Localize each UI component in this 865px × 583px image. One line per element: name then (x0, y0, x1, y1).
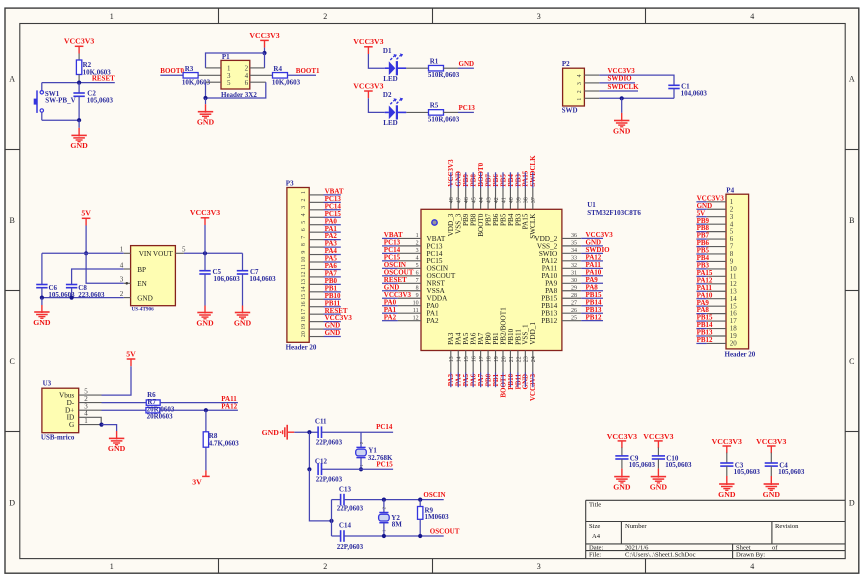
svg-text:34: 34 (571, 248, 577, 254)
node PC13 (458, 104, 475, 112)
junction (382, 498, 423, 502)
resistor R1 (428, 58, 460, 80)
svg-text:VCC3V3: VCC3V3 (643, 432, 673, 441)
svg-text:GND: GND (262, 428, 280, 437)
wire (368, 54, 384, 68)
wire (102, 425, 117, 431)
capacitor C4 (765, 462, 805, 477)
ground (613, 98, 631, 135)
capacitor C6 (36, 253, 75, 299)
resistor R7 (102, 398, 175, 420)
ground (613, 469, 631, 492)
node PA1 (324, 225, 341, 233)
crystal Y2 8M (379, 506, 403, 532)
svg-text:R2: R2 (83, 61, 92, 69)
svg-text:R4: R4 (273, 65, 282, 73)
wire (383, 523, 385, 536)
svg-text:18: 18 (486, 356, 492, 362)
node PA5 (462, 373, 470, 388)
svg-text:SWDCLK: SWDCLK (608, 83, 640, 91)
ground (718, 476, 736, 499)
wire (42, 82, 79, 84)
node PB9 (462, 172, 470, 188)
node PB1 (324, 284, 341, 292)
power VCC3V3 (756, 437, 786, 453)
svg-text:43: 43 (486, 197, 492, 203)
svg-text:4: 4 (120, 261, 124, 269)
node OSCOUT (382, 268, 414, 276)
svg-text:Drawn By:: Drawn By: (736, 552, 765, 559)
svg-text:18: 18 (301, 316, 307, 322)
ground (650, 469, 668, 492)
svg-text:3: 3 (416, 248, 419, 254)
svg-text:2: 2 (323, 12, 327, 21)
svg-text:104,0603: 104,0603 (681, 90, 708, 98)
node PA15 (522, 170, 530, 188)
svg-text:VCC3V3: VCC3V3 (64, 37, 94, 46)
node PA3 (324, 240, 341, 248)
svg-text:B: B (849, 216, 854, 225)
svg-text:5V: 5V (126, 349, 136, 358)
junction (203, 96, 207, 100)
wire (78, 54, 80, 61)
svg-text:105,0603: 105,0603 (665, 461, 692, 469)
wire (42, 119, 79, 121)
node PC15 (361, 460, 393, 469)
connector P2 SWD (562, 60, 600, 114)
svg-text:5V: 5V (81, 209, 91, 218)
power 3V (192, 470, 209, 486)
node PA1 (382, 306, 398, 314)
svg-text:Header 20: Header 20 (286, 344, 317, 352)
node GND (324, 329, 341, 337)
connector U3 USB-mrico (41, 380, 102, 442)
node GND (455, 171, 463, 188)
node PB1 (492, 373, 500, 388)
wire (294, 431, 318, 433)
junction (77, 81, 81, 85)
power 5V (81, 209, 91, 226)
svg-text:48: 48 (449, 197, 455, 203)
svg-text:G: G (69, 421, 74, 429)
wire (621, 448, 623, 456)
node PA0 (382, 298, 398, 306)
node PA12 (696, 276, 713, 284)
node PA6 (470, 373, 478, 388)
svg-text:20R0603: 20R0603 (147, 413, 174, 421)
node VBAT (382, 231, 403, 239)
svg-text:1: 1 (120, 246, 124, 254)
node PA11 (581, 261, 603, 269)
svg-text:1: 1 (110, 562, 114, 571)
svg-text:6: 6 (245, 79, 249, 87)
power VCC3V3 (353, 37, 383, 54)
wire (770, 453, 772, 463)
node PA8 (696, 306, 709, 314)
wire (599, 97, 674, 99)
svg-text:11: 11 (413, 308, 419, 314)
capacitor C10 (652, 455, 692, 470)
svg-text:B: B (10, 216, 15, 225)
wire (308, 432, 310, 469)
junction (77, 118, 81, 122)
svg-text:1M0603: 1M0603 (425, 513, 450, 521)
svg-text:VCC3V3: VCC3V3 (353, 81, 383, 90)
junction (262, 51, 266, 55)
node PA2 (324, 232, 341, 240)
node PB7 (484, 172, 492, 188)
node PB11 (324, 299, 341, 307)
svg-text:3V: 3V (192, 478, 202, 487)
svg-text:3: 3 (301, 206, 307, 209)
node PB15 (696, 314, 713, 322)
node GND (522, 373, 530, 390)
svg-text:GND: GND (70, 141, 88, 150)
resistor R2 (76, 60, 111, 83)
svg-text:33: 33 (571, 256, 577, 262)
wire (406, 111, 429, 113)
node PC13 (382, 238, 401, 246)
junction (620, 96, 624, 100)
svg-text:4: 4 (750, 12, 754, 21)
svg-text:7: 7 (416, 278, 419, 284)
node PA2 (382, 313, 398, 321)
svg-text:C11: C11 (315, 418, 327, 426)
svg-text:42: 42 (494, 197, 500, 203)
node BOOT1 (288, 67, 320, 75)
svg-text:105,0603: 105,0603 (87, 97, 114, 105)
svg-text:6: 6 (416, 271, 419, 277)
svg-text:106,0603: 106,0603 (214, 275, 241, 283)
junction (329, 519, 333, 523)
svg-text:7: 7 (301, 236, 307, 239)
svg-text:P3: P3 (286, 180, 294, 188)
wire (264, 48, 266, 53)
svg-text:5: 5 (301, 221, 307, 224)
svg-text:GND: GND (650, 482, 668, 491)
svg-text:2: 2 (323, 562, 327, 571)
node PC15 (324, 210, 342, 218)
node PA10 (581, 268, 603, 276)
svg-text:PB12: PB12 (541, 317, 557, 325)
svg-text:5: 5 (182, 246, 186, 254)
svg-text:30: 30 (571, 278, 577, 284)
junction (382, 534, 423, 538)
capacitor C8 (66, 284, 105, 299)
svg-text:P1: P1 (222, 53, 230, 61)
wire (360, 432, 362, 447)
svg-text:3: 3 (577, 82, 583, 85)
svg-text:C: C (849, 357, 854, 366)
svg-text:C: C (10, 357, 15, 366)
svg-text:19: 19 (301, 324, 307, 330)
wire (406, 67, 429, 69)
svg-text:Date:: Date: (589, 544, 603, 551)
wire (657, 448, 659, 456)
svg-text:510R,0603: 510R,0603 (428, 115, 460, 123)
svg-text:4: 4 (416, 256, 419, 262)
svg-text:VCC3V3: VCC3V3 (249, 31, 279, 40)
svg-text:GND: GND (234, 318, 252, 327)
svg-text:3: 3 (537, 12, 541, 21)
svg-text:2: 2 (416, 241, 419, 247)
svg-text:17: 17 (479, 356, 485, 362)
svg-text:BP: BP (137, 266, 146, 274)
wire (309, 469, 331, 521)
svg-text:10: 10 (301, 257, 307, 263)
capacitor C14 (337, 521, 364, 551)
svg-text:20: 20 (730, 340, 738, 348)
wire (42, 297, 124, 299)
node PC14 (361, 423, 393, 432)
resistor R5 (428, 102, 460, 124)
svg-text:A: A (9, 75, 15, 84)
svg-text:C12: C12 (315, 457, 328, 465)
node VCC3V3 (696, 194, 724, 202)
ground (234, 306, 252, 328)
svg-text:36: 36 (571, 233, 577, 239)
svg-text:VCC3V3: VCC3V3 (353, 37, 383, 46)
svg-text:9: 9 (301, 251, 307, 254)
svg-text:1: 1 (416, 233, 419, 239)
ground (108, 431, 126, 453)
svg-text:2: 2 (301, 198, 307, 201)
node PA0 (324, 217, 341, 225)
svg-text:VIN: VIN (139, 250, 153, 258)
power VCC3V3 (64, 37, 94, 54)
svg-text:46: 46 (464, 197, 470, 203)
node PB9 (696, 217, 709, 225)
node PB10 (507, 373, 515, 390)
svg-text:6: 6 (301, 228, 307, 231)
svg-text:of: of (772, 544, 778, 551)
svg-text:A: A (849, 75, 855, 84)
svg-text:20: 20 (501, 356, 507, 362)
svg-text:BOOT1: BOOT1 (296, 67, 320, 75)
ground (70, 120, 88, 150)
node VCC3V3 (447, 159, 455, 188)
resistor R6 (146, 391, 160, 405)
junction (99, 423, 103, 427)
svg-text:USB-mrico: USB-mrico (41, 433, 75, 441)
wire (85, 226, 87, 254)
svg-text:9: 9 (416, 293, 419, 299)
svg-text:D1: D1 (383, 47, 392, 55)
capacitor C7 (237, 253, 276, 305)
node SWDIO (599, 75, 635, 83)
svg-text:A4: A4 (592, 533, 601, 540)
wire (368, 98, 384, 112)
svg-text:12: 12 (413, 315, 419, 321)
node PB14 (581, 298, 603, 306)
junction (359, 467, 363, 471)
node BOOT0 (477, 162, 485, 188)
svg-text:Size: Size (589, 523, 600, 530)
svg-text:22P,0603: 22P,0603 (337, 543, 364, 551)
node PB7 (696, 232, 709, 240)
wire (205, 410, 207, 432)
wire (332, 499, 341, 501)
node GND (581, 238, 603, 246)
svg-text:105,0603: 105,0603 (629, 461, 656, 469)
node OSCIN (382, 261, 406, 269)
svg-text:23: 23 (524, 356, 530, 362)
node GND (458, 60, 474, 68)
svg-text:BOOT0: BOOT0 (160, 67, 184, 75)
crystal Y1 32.768K (356, 441, 393, 467)
svg-text:8M: 8M (392, 521, 403, 529)
svg-text:13: 13 (449, 356, 455, 362)
svg-text:P4: P4 (726, 186, 734, 194)
MCU U1 STM32F103C8T6 (398, 188, 642, 373)
node PA8 (581, 283, 603, 291)
svg-text:40: 40 (509, 197, 515, 203)
svg-text:44: 44 (479, 197, 485, 203)
svg-text:SWDIO: SWDIO (608, 75, 633, 83)
svg-text:PC14: PC14 (376, 423, 393, 431)
svg-text:21: 21 (509, 356, 515, 362)
svg-text:3: 3 (537, 562, 541, 571)
svg-text:VCC3V3: VCC3V3 (190, 208, 220, 217)
node PB5 (499, 172, 507, 188)
svg-text:D: D (849, 498, 855, 507)
capacitor C2 (73, 83, 113, 121)
wire (383, 500, 385, 513)
node PA6 (324, 262, 341, 270)
svg-text:4: 4 (577, 74, 583, 77)
junction (204, 408, 208, 412)
wire (332, 535, 341, 537)
svg-text:Header 20: Header 20 (725, 350, 756, 358)
svg-text:22P,0603: 22P,0603 (337, 505, 364, 513)
svg-text:15: 15 (301, 294, 307, 300)
node SWDCLK (529, 155, 537, 188)
svg-text:10K,0603: 10K,0603 (272, 78, 301, 86)
svg-text:EN: EN (137, 280, 147, 288)
node SWDCLK (599, 83, 639, 91)
svg-text:47: 47 (457, 197, 463, 203)
svg-text:R5: R5 (430, 102, 439, 110)
svg-text:16: 16 (301, 301, 307, 307)
svg-text:24: 24 (531, 356, 537, 362)
wire (344, 499, 444, 501)
node RESET (324, 307, 348, 315)
svg-text:GND: GND (613, 126, 631, 135)
svg-text:C:\Users\..\Sheet1.SchDoc: C:\Users\..\Sheet1.SchDoc (625, 552, 696, 559)
svg-text:8: 8 (301, 243, 307, 246)
svg-text:5: 5 (416, 263, 419, 269)
node PC13 (324, 195, 342, 203)
node VCC3V3 (599, 67, 674, 85)
node PA7 (477, 373, 485, 388)
svg-text:4: 4 (750, 562, 754, 571)
node PB12 (696, 336, 713, 344)
node PA3 (447, 373, 455, 388)
wire (86, 253, 124, 283)
svg-text:35: 35 (571, 241, 577, 247)
node PA11 (696, 284, 712, 292)
title block (586, 500, 846, 558)
junction (307, 467, 311, 471)
node RESET (79, 75, 115, 83)
svg-text:1: 1 (110, 12, 114, 21)
wire (206, 82, 266, 98)
power GND left (262, 425, 295, 440)
node VBAT (324, 188, 344, 196)
svg-text:105,0603: 105,0603 (734, 468, 761, 476)
svg-text:25: 25 (571, 315, 577, 321)
svg-text:LED: LED (383, 75, 397, 83)
svg-text:Revision: Revision (775, 523, 799, 530)
svg-text:19: 19 (494, 356, 500, 362)
node PB13 (581, 306, 603, 314)
svg-text:510R,0603: 510R,0603 (428, 71, 460, 79)
svg-text:US-4T906: US-4T906 (132, 307, 155, 313)
svg-text:SWCLK: SWCLK (529, 213, 537, 239)
LED D2 (383, 91, 406, 127)
node PA15 (696, 269, 713, 277)
ground (196, 306, 214, 328)
svg-text:GND: GND (763, 490, 781, 499)
node PB0 (324, 277, 341, 285)
svg-text:Sheet: Sheet (736, 544, 751, 551)
svg-text:VCC3V3: VCC3V3 (607, 432, 637, 441)
node PA7 (324, 270, 341, 278)
svg-text:GND: GND (613, 482, 631, 491)
svg-text:D2: D2 (383, 91, 392, 99)
connector P4 Header 20 (707, 186, 756, 358)
svg-text:31: 31 (571, 271, 577, 277)
wire (72, 269, 124, 285)
capacitor C9 (615, 455, 655, 470)
capacitor C5 (199, 253, 240, 305)
node VCC3V3 (581, 231, 613, 239)
svg-text:C13: C13 (339, 485, 352, 493)
svg-text:R1: R1 (430, 58, 439, 66)
node RESET (382, 276, 407, 284)
junction (40, 296, 74, 300)
svg-text:37: 37 (531, 197, 537, 203)
node PB10 (324, 292, 342, 300)
svg-text:GND: GND (718, 490, 736, 499)
node PB8 (470, 172, 478, 188)
svg-text:P2: P2 (562, 60, 570, 68)
power VCC3V3 (607, 432, 637, 448)
svg-text:Title: Title (589, 501, 601, 508)
svg-text:GND: GND (108, 444, 126, 453)
capacitor C3 (720, 462, 760, 477)
svg-text:15: 15 (464, 356, 470, 362)
node PA12 (160, 403, 238, 411)
node PA12 (581, 253, 603, 261)
junction (84, 251, 88, 255)
LED D1 (383, 47, 406, 83)
svg-text:105,0603: 105,0603 (778, 468, 805, 476)
capacitor C1 (668, 83, 707, 99)
regulator U2 (120, 246, 186, 313)
svg-text:OSCIN: OSCIN (423, 491, 445, 499)
wire (102, 402, 147, 404)
svg-text:LED: LED (383, 119, 397, 127)
wire (331, 500, 333, 536)
power VCC3V3 (643, 432, 673, 448)
node PB14 (696, 321, 713, 329)
svg-text:GND: GND (196, 318, 214, 327)
svg-text:10: 10 (413, 300, 419, 306)
node PA11 (160, 395, 238, 403)
resistor R3 (182, 65, 221, 87)
svg-text:8: 8 (416, 285, 419, 291)
